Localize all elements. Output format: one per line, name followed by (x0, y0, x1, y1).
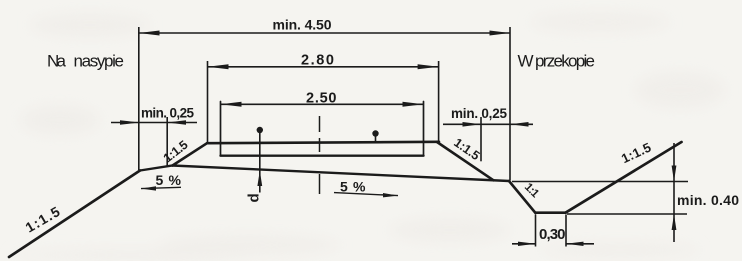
arrowhead 0.25 left outer (120, 120, 139, 125)
svg-text:nasypie: nasypie (74, 52, 125, 71)
svg-text:min. 0.40: min. 0.40 (677, 192, 739, 208)
dimension line min 0.25 left (111, 122, 197, 124)
pavement rectangle left edge / 2.50 extension (220, 102, 222, 156)
arrowhead 0.30 left (518, 242, 536, 246)
svg-text:2.80: 2.80 (301, 53, 334, 69)
extension line 0.30 right (565, 215, 567, 247)
d dimension arrowhead up (257, 171, 262, 186)
arrowhead 0.25 right outer (463, 122, 482, 127)
pavement left side slope 1:1.5 (173, 143, 208, 165)
svg-text:przekopie: przekopie (535, 52, 595, 71)
dimension line min 4.50 (139, 32, 510, 34)
d dimension line (259, 131, 261, 193)
5% underline right (334, 193, 398, 196)
pavement rectangle bottom (221, 154, 424, 156)
marker stem right (375, 133, 377, 142)
ditch left slope 1:1 (509, 181, 536, 213)
arrowhead 2.50 right (403, 102, 424, 107)
arrowhead 2.80 right (418, 64, 439, 69)
svg-text:5%: 5% (156, 172, 182, 188)
extension line 0.30 left (535, 215, 537, 247)
svg-text:2.50: 2.50 (306, 91, 337, 107)
pavement right side slope 1:1.5 (437, 142, 494, 180)
marker dot right (372, 130, 378, 136)
svg-text:min. 0,25: min. 0,25 (141, 106, 194, 121)
5% underline left (141, 187, 181, 188)
svg-text:5%: 5% (340, 179, 366, 195)
arrowhead 5% right (383, 193, 398, 197)
arrowhead min 0.40 bottom (672, 214, 677, 230)
dimension line min 0.25 right (443, 123, 533, 125)
extension line 2.80 left (207, 61, 209, 143)
extension line 2.80 right (438, 61, 440, 142)
dimension line 2.50 (221, 103, 424, 105)
svg-text:Na: Na (47, 52, 67, 71)
pavement rectangle right edge / 2.50 extension (423, 102, 425, 156)
dimension line 0.30 right piece (566, 243, 594, 245)
svg-text:min. 4.50: min. 4.50 (273, 17, 332, 33)
arrowhead min 0.40 top (672, 166, 677, 182)
extension line right crown (4.50 and 0.25) (509, 27, 511, 181)
svg-text:d: d (246, 193, 263, 202)
embankment slope 1:1.5 left (9, 171, 140, 258)
cutting slope 1:1.5 right (566, 142, 682, 213)
arrowhead 4.50 left (139, 31, 160, 36)
pavement top surface (207, 142, 439, 143)
dimension line 2.80 (208, 66, 439, 68)
dimension line 0.30 left piece (512, 243, 536, 245)
arrowhead 0.25 left inner (167, 120, 186, 125)
ditch bottom reference line (567, 213, 687, 215)
extension line min 0.25 left (pavement toe) (166, 117, 168, 166)
arrowhead 4.50 right (490, 31, 511, 36)
ditch bottom (536, 211, 566, 214)
svg-text:W: W (518, 52, 534, 71)
arrowhead 5% left (141, 186, 156, 190)
formation line (5% slopes) (140, 166, 509, 182)
arrowhead 0.30 right (566, 242, 584, 246)
centerline (dashed axis) (319, 116, 321, 194)
arrowhead 2.50 left (221, 102, 242, 107)
arrowhead 0.25 right inner (510, 122, 529, 127)
svg-text:min. 0,25: min. 0,25 (451, 106, 507, 121)
arrowhead 2.80 left (208, 64, 229, 69)
svg-text:0,30: 0,30 (539, 226, 566, 243)
extension line min 0.25 right (pavement toe) (480, 117, 482, 161)
extension line left crown (4.50 and 0.25) (138, 27, 140, 170)
cutting ground reference line (512, 181, 688, 183)
dimension line min 0.40 vertical (673, 143, 675, 242)
d dimension dot (257, 127, 263, 133)
